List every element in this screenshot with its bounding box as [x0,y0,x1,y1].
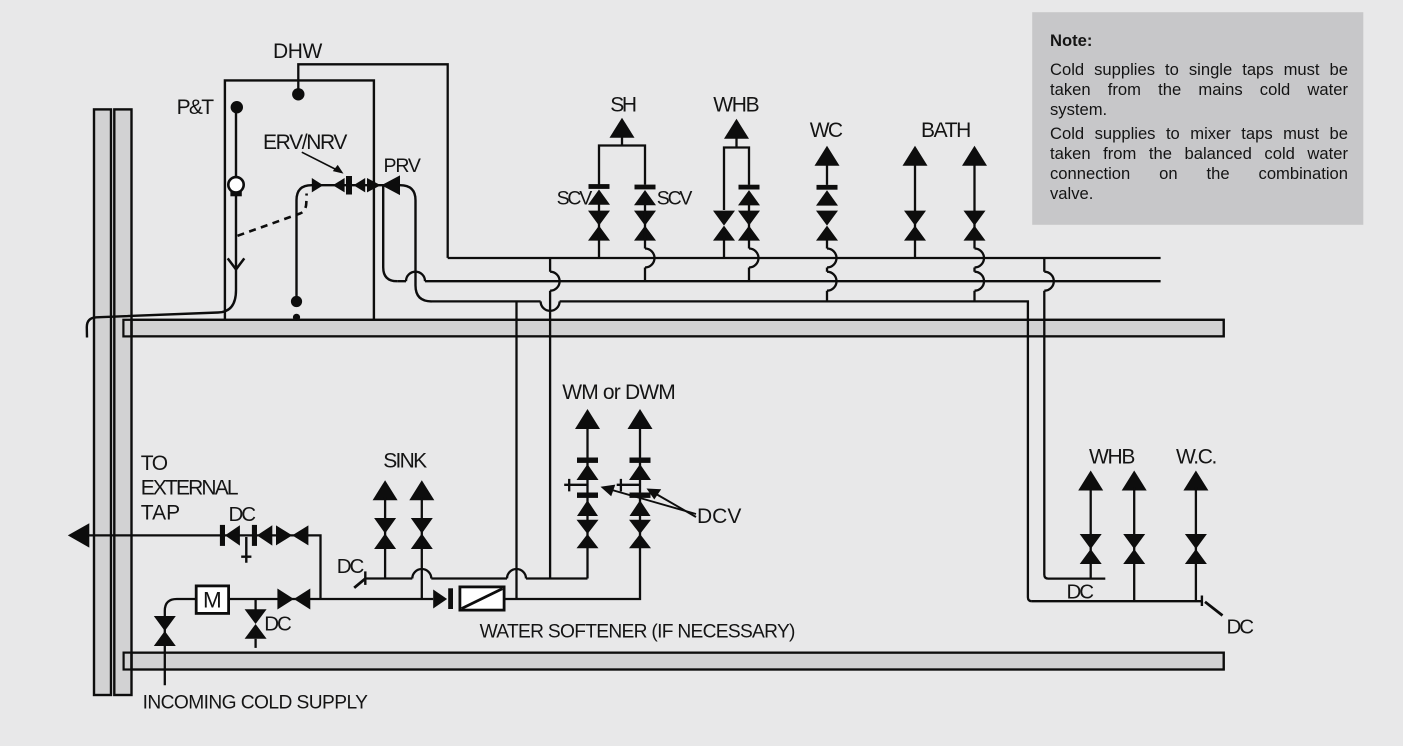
SCV seat bar SH left [589,184,610,189]
softener inlet check seat bar [448,588,453,609]
DC slash leader lower right [1205,602,1223,616]
svg-text:SH: SH [610,94,636,117]
valve on external tap line [276,525,308,545]
WHB outlet arrow [724,119,749,139]
DC drain stub [254,639,256,648]
DCV leader arrow to right test cock [657,495,696,518]
valve SH right [634,211,656,241]
DCV check triangle WM right lower [630,500,651,516]
WM left outlet arrow [575,409,600,429]
SCV seat bar WHB right [739,185,760,190]
DCV test cock tick WM left [564,479,587,492]
svg-text:WATER SOFTENER (IF NECESSARY): WATER SOFTENER (IF NECESSARY) [480,622,795,643]
ERV/NRV valve triangle right [312,178,323,192]
svg-text:DHW: DHW [273,40,323,63]
wire SH left pipe to line 1 [598,204,600,258]
hop WC over line 2 [827,272,837,291]
DCV seat bar WM left lower [577,493,598,498]
svg-text:SCV: SCV [657,188,693,210]
node combination valve feed dot lower [293,314,300,321]
wire WHB right pipe with hop over line 1 down to line 2 [748,204,750,281]
svg-text:BATH: BATH [921,119,970,142]
hop SH right over line 1 [645,249,655,268]
valve WHB lower right [1123,534,1145,564]
SCV seat bar WC [817,185,838,190]
WHB lower left tap arrow [1078,471,1103,491]
SCV check triangle WHB right [738,190,760,205]
wire WHB lower right pipe [1133,487,1135,601]
wire SH right pipe with hop over line 1 down to line 2 [644,204,646,281]
svg-text:P&T: P&T [177,96,215,119]
svg-text:DC: DC [1227,616,1255,639]
wire sink left pipe [384,497,386,579]
SCV check triangle SH left [588,190,610,205]
svg-text:TO: TO [141,452,168,475]
DC valve seat bar 2 [252,525,257,546]
gauge base block [230,191,241,196]
valve WC [816,211,838,241]
hop kitchen line over V1 riser [507,569,526,579]
SH mixer bridge [599,146,645,185]
wall stud right bar [114,109,131,695]
WM right outlet arrow [628,409,653,429]
DC tick at end of cloakroom line [1201,596,1203,607]
svg-text:WHB: WHB [713,94,758,117]
wire WC pipe hops over lines 1-2 down to line 3 [826,236,828,301]
wire WM left pipe [586,426,588,579]
water softener diagonal [462,589,503,609]
valve sink right [411,518,433,549]
wire mains cold line 3 (with dip hop under V2, corner down at right) [432,301,1032,601]
svg-text:PRV: PRV [384,155,421,177]
svg-text:WHB: WHB [1089,446,1134,469]
node DHW tank connection dot [292,88,304,100]
dashed sensor capillary line [238,194,307,236]
node combination valve feed dot upper [291,296,302,307]
DCV seat bar WM right lower [630,493,651,498]
DCV test cock tick WM right [617,479,640,492]
softener inlet check valve triangle [433,590,447,609]
svg-text:M: M [203,588,222,613]
wire BATH left pipe [914,163,916,258]
floor slab upper outline redraw [123,320,1223,337]
valve DC below meter line [245,609,267,639]
hop BATH right over line 1 [975,249,985,268]
DCV check triangle WM left lower [577,500,598,516]
wire DC drain stem below meter line [254,599,256,610]
SCV check triangle WC [816,190,838,205]
wire lower cloakroom cold line from line 3 drop [1032,600,1202,602]
floor slab upper [123,320,1223,337]
hop of line 2 over mains vertical [406,272,425,282]
DC slash [354,578,365,587]
node P&T connection dot [231,101,243,113]
valve WHB right [738,211,760,241]
svg-text:DC: DC [229,503,257,526]
wire V1 mains riser from line 3 down to softened line [515,301,517,599]
DC tick at start of kitchen hot line [364,571,366,585]
BATH left outlet arrow [903,146,928,166]
wire combination valve inlet riser and valve-train pipe [297,185,432,301]
wire WHB left pipe to line 1 [723,236,725,258]
gauge on P&T line [228,177,243,192]
ERV/NRV valve triangle left 2 [354,178,366,192]
wall stud left bar [94,109,111,695]
wire sink right pipe through hop down to softened line [421,497,423,599]
note box background [1032,12,1363,225]
WC outlet arrow [815,146,840,166]
valve BATH right [964,211,986,241]
DC drain tee below external line [241,537,251,563]
wire V2 hot drop from line 1 (hop over line 2) to kitchen hot line [549,258,551,579]
DCV seat bar WM right upper [630,458,651,463]
DC valve seat bar 1 on external line [220,525,225,546]
PRV bowtie small right triangle [367,178,381,192]
wire WHB lower left pipe [1090,487,1092,579]
valve WHB lower left [1080,534,1102,564]
hop kitchen line over sink right pipe [412,569,431,579]
hop V3 over line 2 [1044,272,1054,291]
hop BATH right over line 2 [975,272,985,291]
wire hot distribution line 1 [448,257,1161,259]
valve SH left [588,211,610,241]
svg-text:INCOMING COLD SUPPLY: INCOMING COLD SUPPLY [143,693,369,714]
svg-text:WM or DWM: WM or DWM [562,381,675,404]
svg-text:SINK: SINK [383,449,427,472]
valve WM right [629,520,651,548]
svg-text:WC: WC [810,119,843,142]
ERV/NRV valve triangle left [333,178,345,192]
floor slab lower [124,653,1224,670]
wire softened water line to WM corner [504,545,640,599]
wire kitchen hot line (hops over sink cold pipe and V1) [366,577,588,579]
wall bar2 right edge across upper floor [130,320,132,337]
wire balanced cold line 2 (with hop gap over mains drop) [397,280,1160,282]
hop V2 over line 2 [550,272,560,291]
BATH right outlet arrow [962,146,987,166]
flow arrow chevron on P&T line [228,258,245,269]
valve WM left [577,520,599,548]
svg-text:ERV/NRV: ERV/NRV [263,131,347,154]
DC valve triangle 2 [257,525,272,545]
valve W.C. [1185,534,1207,564]
wire meter outlet line to softener [228,598,433,600]
wire W.C. pipe [1195,487,1197,601]
SINK left tap arrow [373,480,398,500]
wire WC pipe upper stem [826,163,828,185]
wire V3 hot drop from line 1 (hop over line 2) to lower cloakroom line [1044,258,1105,579]
cylinder tank outline [225,80,374,319]
svg-text:DC: DC [264,613,292,636]
svg-text:EXTERNAL: EXTERNAL [141,477,238,500]
wire WM right pipe [639,426,641,546]
DCV seat bar WM left upper [577,458,598,463]
SCV check triangle SH right [634,190,656,205]
hop WC over line 1 [827,249,837,268]
svg-text:DC: DC [337,555,365,578]
dip hop of line 3 under vertical V2 [541,301,560,311]
DCV check triangle WM left upper [577,464,599,480]
meter M box [196,586,228,614]
svg-text:W.C.: W.C. [1176,446,1216,469]
SH outlet arrow [610,118,635,138]
SINK right tap arrow [409,480,434,500]
valve BATH left [904,211,926,241]
valve on incoming riser [154,616,176,646]
hop WHB right over line 1 [749,249,759,268]
DC valve triangle 1 [225,525,240,545]
wire external tap line with corner down to meter line [80,535,321,599]
wall bar2 right edge across lower floor [130,653,132,670]
svg-text:DC: DC [1067,581,1095,604]
WHB mixer bridge [724,148,749,211]
WHB lower right tap arrow [1122,471,1147,491]
svg-text:SCV: SCV [557,188,593,210]
svg-text:DCV: DCV [697,505,741,528]
floor slab lower outline redraw [124,653,1224,670]
leader arrow from ERV/NRV label to valve [302,152,338,170]
valve WHB left [713,211,735,241]
valve on meter outlet [277,589,310,610]
DCV leader arrow to left test cock [612,490,696,514]
W.C. tap arrow [1183,471,1208,491]
wire balanced-cold drop from PRV point to line 2 [383,186,397,281]
wire BATH right pipe hops over lines 1-2 down to line 3 [973,163,975,301]
svg-text:TAP: TAP [141,502,180,525]
SCV seat bar SH right [635,185,656,190]
DCV check triangle WM right upper [629,464,651,480]
wire DHW pipe from tank top to hot line 1 corner [298,64,447,258]
external tap arrow [68,523,90,547]
wire P&T relief pipe down, elbow left through wall with drip hook [87,107,236,338]
valve sink left [374,518,396,549]
water softener box [460,587,504,610]
PRV bowtie large left triangle [381,175,400,195]
wire incoming supply riser through lower floor to meter [165,599,196,685]
ERV/NRV seat bar [346,176,352,195]
